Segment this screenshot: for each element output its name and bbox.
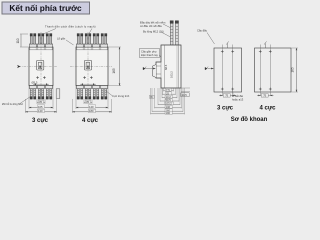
svg-text:7.5: 7.5 (166, 88, 170, 92)
plate 4P (255, 48, 292, 92)
svg-text:Cực trung tính: Cực trung tính (112, 94, 130, 98)
svg-text:140: 140 (38, 109, 43, 113)
hole centerline A (221, 45, 223, 97)
svg-text:Bu lông M12 (16): Bu lông M12 (16) (143, 30, 164, 34)
lug P3 bottom (46, 86, 53, 100)
side body inner lines (161, 45, 179, 88)
lug P2 top (85, 34, 92, 48)
breaker1 cover ticks (30, 47, 52, 50)
accessory window (37, 60, 44, 70)
plate 3P (214, 48, 242, 92)
svg-text:kiện thanh ray: kiện thanh ray (141, 53, 159, 57)
svg-text:140: 140 (89, 105, 94, 109)
svg-text:105: 105 (38, 105, 43, 109)
dim 14.5 right (181, 88, 190, 92)
svg-text:103.2: 103.2 (165, 102, 172, 106)
leader wire (66, 40, 74, 45)
svg-text:13.2: 13.2 (166, 95, 172, 99)
svg-text:Sơ đồ khoan: Sơ đồ khoan (231, 117, 268, 123)
svg-text:165: 165 (112, 68, 116, 74)
dim 105 (29, 86, 53, 109)
leader for bolt note (20, 97, 31, 104)
breaker2 terminal shelf (76, 43, 108, 45)
svg-text:35: 35 (39, 100, 42, 104)
toggle handle (152, 65, 156, 78)
lug P2 bottom (85, 86, 92, 100)
lug N top (101, 34, 108, 48)
svg-text:190: 190 (166, 111, 171, 115)
svg-text:165: 165 (291, 67, 295, 73)
lug P3 top (46, 34, 53, 48)
svg-text:Thanh dẫn cách điện (cách ly m: Thanh dẫn cách điện (cách ly mạch) (45, 25, 96, 29)
dim 35 bracket (84, 99, 92, 104)
lug N bottom (101, 86, 108, 100)
lug P1 bottom (30, 86, 37, 100)
svg-text:68.5: 68.5 (164, 64, 168, 70)
breaker1 terminal shelf (29, 43, 53, 45)
svg-text:hoặc ø13: hoặc ø13 (232, 97, 244, 101)
leader wire (160, 55, 162, 58)
vertical centerline (40, 32, 42, 100)
lug P3 top (93, 34, 100, 48)
svg-text:103.2: 103.2 (170, 71, 174, 78)
svg-text:4 cực: 4 cực (82, 118, 99, 124)
breaker1 body (29, 47, 53, 86)
svg-text:Đầu dây kết nối mềm: Đầu dây kết nối mềm (140, 21, 166, 25)
leader wire right (89, 29, 92, 34)
mounting hole crosses (36, 76, 39, 79)
breaker2 body (76, 47, 108, 86)
svg-text:Cầu đấu: Cầu đấu (197, 29, 208, 33)
leader (232, 91, 234, 95)
lug P2 top (38, 34, 45, 48)
hole centerline C (259, 45, 261, 97)
side barrier plate (56, 89, 60, 99)
svg-text:3 cực: 3 cực (217, 106, 234, 112)
dim 35 below 3P (219, 94, 236, 96)
breaker1 cover line (29, 49, 53, 51)
drill holes 3P (221, 50, 224, 53)
svg-text:25: 25 (166, 91, 169, 95)
svg-text:3 cực: 3 cực (32, 118, 49, 124)
handle protrusion lines (156, 66, 161, 74)
svg-text:180: 180 (89, 109, 94, 113)
svg-text:75: 75 (263, 94, 266, 98)
CL tick 4P (264, 44, 266, 49)
svg-text:140: 140 (166, 105, 171, 109)
svg-text:75: 75 (225, 94, 228, 98)
bottom dim stack (164, 88, 174, 92)
CL tick 3P (227, 44, 229, 49)
side studs (170, 21, 178, 45)
svg-text:Kết nối phía trước: Kết nối phía trước (9, 3, 82, 13)
height dim 165 drill (291, 48, 299, 92)
lug P2 bottom (38, 86, 45, 100)
horizontal centerline with CL symbol (19, 66, 58, 68)
dim 140 (76, 86, 108, 109)
rail accessory callout box (140, 49, 160, 58)
leader wires (161, 24, 171, 37)
hole centerline D (269, 45, 271, 97)
svg-text:có đầu cốt nối đều: có đầu cốt nối đều (140, 24, 162, 28)
hole centerline B (232, 45, 234, 97)
leader wire (207, 33, 215, 45)
svg-text:35: 35 (86, 100, 89, 104)
svg-text:110: 110 (16, 38, 20, 43)
svg-text:50.5: 50.5 (166, 98, 172, 102)
pitch dim arrows (80, 83, 96, 85)
leader wire left (42, 29, 56, 35)
dim 180 (72, 99, 111, 113)
height dim 165 (109, 47, 122, 86)
small left value box (150, 95, 155, 98)
dim 35 bracket b1 (37, 99, 45, 104)
drill holes 4P (259, 50, 262, 53)
accessory window (84, 60, 91, 70)
leader wire (106, 91, 112, 96)
title box (2, 2, 90, 14)
lug P3 bottom (93, 86, 100, 100)
dim 140 (25, 99, 56, 113)
dim 35 below 4P (257, 94, 274, 96)
svg-text:4 cực: 4 cực (259, 106, 276, 112)
lug P1 bottom (77, 86, 84, 100)
side body (156, 45, 181, 88)
mounting hole crosses (83, 76, 86, 79)
breaker2 cover ticks (77, 47, 107, 50)
lug P1 top (77, 34, 84, 48)
pitch dim arrows at body bottom (33, 83, 49, 85)
breaker2 cover line (76, 49, 108, 51)
horizontal centerline (70, 66, 112, 68)
lug P1 top (30, 34, 37, 48)
CL arrow annotation (208, 68, 214, 70)
centerline arrow left (145, 68, 156, 70)
dim 110 left of lugs (16, 34, 28, 47)
vertical centerline (87, 32, 89, 100)
